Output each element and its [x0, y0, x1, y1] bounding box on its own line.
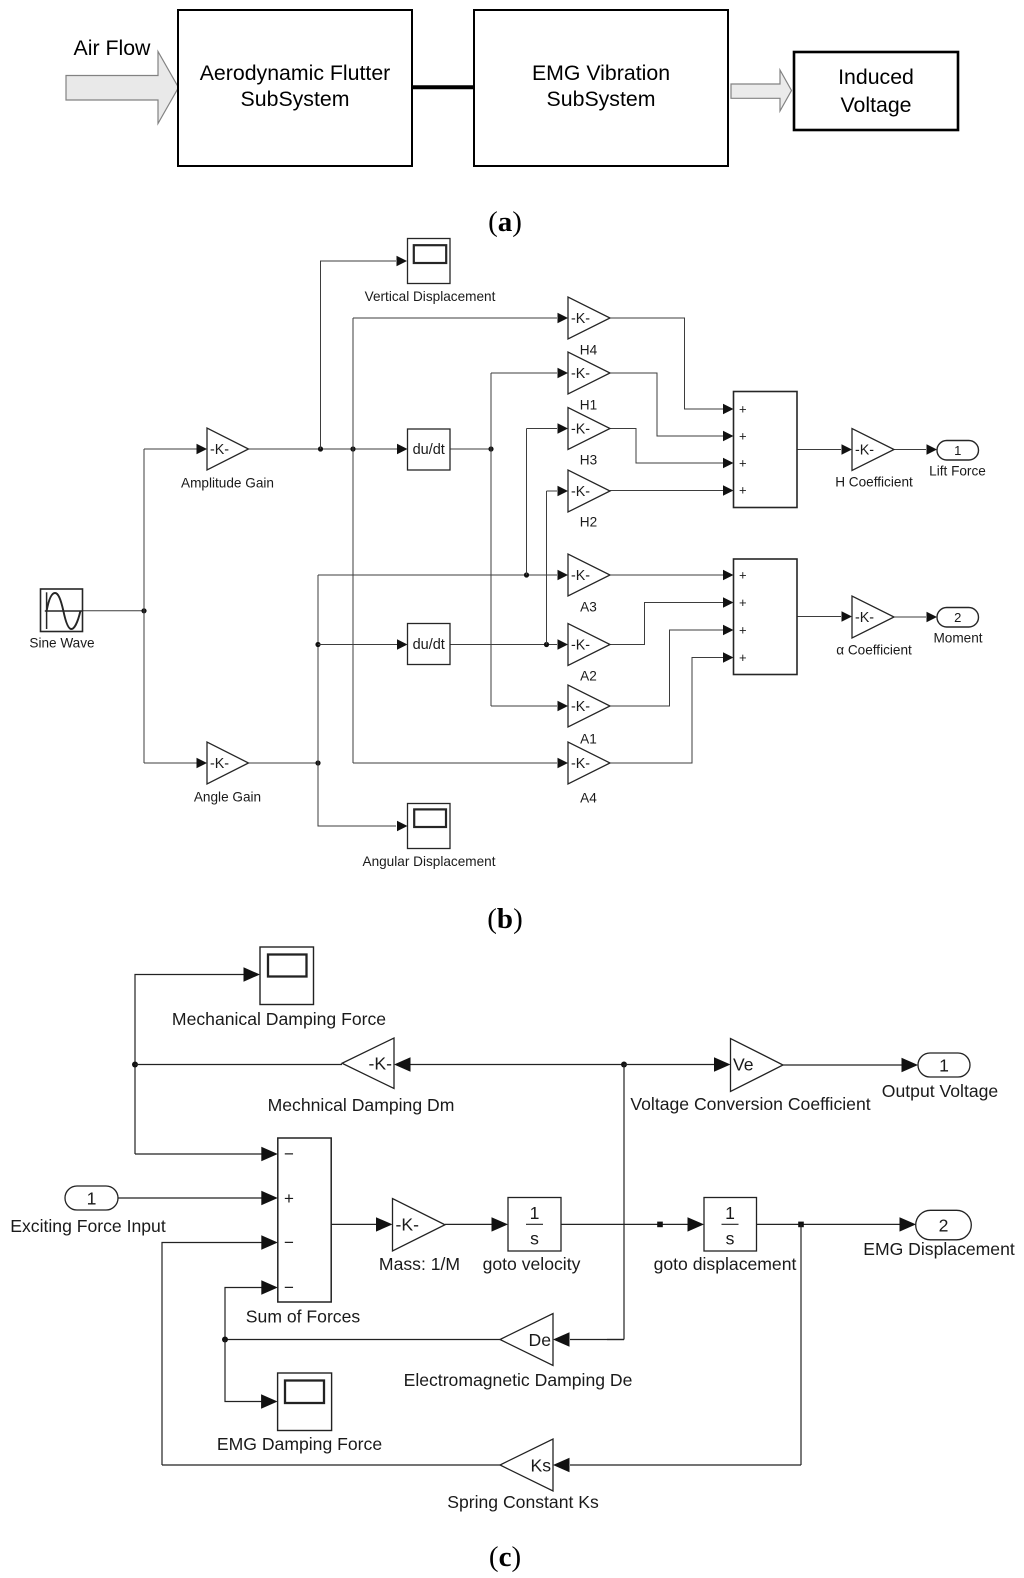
- block: Sum2 (alpha moment adder): [734, 559, 798, 675]
- inport 1: Exciting Force Input: [65, 1186, 118, 1210]
- svg-text:-K-: -K-: [571, 756, 590, 772]
- svg-text:-K-: -K-: [571, 638, 590, 654]
- gain: H2: [568, 470, 610, 512]
- junction velocity top: [621, 1062, 627, 1068]
- svg-text:−: −: [284, 1233, 294, 1252]
- block: EMG Vibration SubSystem: [474, 10, 728, 166]
- wire: displacement into Ks gain: [570, 1464, 801, 1466]
- svg-text:1: 1: [725, 1203, 735, 1223]
- wire: vertical x=624 (velocity trunk down to De): [623, 1065, 625, 1340]
- svg-text:-K-: -K-: [210, 756, 229, 772]
- svg-text:α Coefficient: α Coefficient: [836, 643, 912, 658]
- junction on angle output: [315, 760, 320, 765]
- wire: alpha Coefficient to port 2: [894, 616, 926, 618]
- wire: Sum output to Mass gain: [331, 1223, 377, 1225]
- wire: h to H4 gain: [353, 317, 557, 319]
- block: Sine Wave source: [41, 589, 83, 632]
- svg-text:H3: H3: [580, 453, 597, 468]
- block: Sum1 (H lift force adder): [734, 392, 798, 508]
- svg-text:−: −: [284, 1145, 294, 1164]
- wire: velocity line into Dm gain: [409, 1064, 624, 1066]
- svg-text:A4: A4: [580, 791, 597, 806]
- svg-text:−: −: [284, 1278, 294, 1297]
- svg-text:-K-: -K-: [571, 311, 590, 327]
- wire: Sine Wave output to junction: [82, 610, 144, 612]
- svg-text:Voltage Conversion Coefficient: Voltage Conversion Coefficient: [630, 1094, 870, 1114]
- wire: A2 out to Sum2 in2: [610, 603, 723, 645]
- svg-text:2: 2: [939, 1215, 949, 1235]
- wire: displacement integrator2 to port: [757, 1223, 901, 1225]
- small gray output arrow: [731, 70, 792, 111]
- thick connector line between subsystems: [412, 85, 474, 89]
- svg-text:1: 1: [954, 443, 961, 458]
- svg-text:H Coefficient: H Coefficient: [835, 475, 913, 490]
- svg-text:(b): (b): [487, 903, 522, 935]
- junction on De output: [222, 1337, 228, 1343]
- svg-text:(a): (a): [488, 206, 522, 238]
- wire: spring force to Sum input 3: [162, 1243, 263, 1466]
- svg-text:du/dt: du/dt: [413, 637, 445, 653]
- scope: Vertical Displacement: [408, 239, 451, 284]
- wire: into Amplitude Gain: [144, 448, 197, 450]
- gain: A4: [568, 742, 610, 784]
- svg-text:-K-: -K-: [396, 1215, 420, 1235]
- svg-text:du/dt: du/dt: [413, 442, 445, 458]
- svg-text:+: +: [739, 595, 747, 610]
- svg-text:-K-: -K-: [369, 1054, 393, 1074]
- junction on Dm output line: [132, 1062, 138, 1068]
- outport 2: EMG Displacement: [916, 1210, 972, 1240]
- wire: du/dt#1 output: [450, 448, 491, 450]
- junction on A3 feed (H3 tap): [524, 572, 529, 577]
- svg-text:Angle Gain: Angle Gain: [194, 790, 261, 805]
- wire: feed to Mechanical Damping Force scope: [135, 975, 245, 1155]
- gain: Angle Gain: [207, 742, 249, 784]
- wire: H1 out to Sum1 in2: [610, 373, 723, 436]
- svg-text:H4: H4: [580, 343, 598, 358]
- svg-text:EMG Damping Force: EMG Damping Force: [217, 1434, 382, 1454]
- svg-text:A3: A3: [580, 600, 597, 615]
- junction square on velocity line: [657, 1222, 663, 1228]
- junction square on displacement line: [798, 1222, 804, 1228]
- svg-text:Ks: Ks: [530, 1455, 551, 1475]
- wire: velocity integrator1 to integrator2: [561, 1223, 689, 1225]
- gain: Ve Voltage Conversion Coefficient: [731, 1039, 784, 1092]
- svg-text:EMG Vibration: EMG Vibration: [532, 61, 670, 85]
- gain: H Coefficient: [852, 429, 894, 471]
- svg-text:-K-: -K-: [855, 610, 874, 626]
- gain: H1: [568, 352, 610, 394]
- svg-text:Angular Displacement: Angular Displacement: [363, 854, 496, 869]
- wire: vertical x=801 (displacement down to Ks): [800, 1224, 802, 1465]
- svg-text:-K-: -K-: [210, 442, 229, 458]
- block: du/dt derivative 1: [408, 429, 451, 470]
- svg-text:goto velocity: goto velocity: [483, 1254, 581, 1274]
- svg-text:Mechanical Damping Force: Mechanical Damping Force: [172, 1009, 386, 1029]
- wire: Sum1 out to H Coefficient: [797, 449, 841, 451]
- gain: H4: [568, 297, 610, 339]
- svg-text:Sine Wave: Sine Wave: [29, 636, 94, 651]
- svg-text:H1: H1: [580, 398, 597, 413]
- wire: A1 out to Sum2 in3: [610, 630, 723, 706]
- svg-text:+: +: [739, 456, 747, 471]
- wire: du/dt#2 output to A2: [450, 644, 557, 646]
- wire: A3 out to Sum2 in1: [610, 574, 723, 576]
- wire: Dm gain output to trunk: [135, 1064, 342, 1066]
- svg-text:goto displacement: goto displacement: [654, 1254, 797, 1274]
- wire: into De gain: [607, 1339, 624, 1341]
- svg-text:Exciting Force Input: Exciting Force Input: [10, 1216, 166, 1236]
- gain: Amplitude Gain: [207, 428, 249, 470]
- svg-text:(c): (c): [489, 1541, 521, 1573]
- junction on amplitude line (scope tap): [318, 446, 323, 451]
- svg-text:A2: A2: [580, 669, 597, 684]
- svg-text:Mass: 1/M: Mass: 1/M: [379, 1254, 460, 1274]
- junction on amplitude line (H4/A4 tap): [350, 446, 355, 451]
- svg-text:1: 1: [530, 1203, 540, 1223]
- wire: Mass gain to integrator 1: [445, 1223, 493, 1225]
- wire: drop to EMG Damping Force scope: [225, 1340, 262, 1402]
- svg-text:Electromagnetic Damping De: Electromagnetic Damping De: [404, 1370, 633, 1390]
- svg-text:Lift Force: Lift Force: [929, 464, 986, 479]
- svg-text:-K-: -K-: [571, 366, 590, 382]
- wire: De output: [225, 1339, 500, 1341]
- wire: A4 out to Sum2 in4: [610, 658, 723, 764]
- svg-text:-K-: -K-: [571, 422, 590, 438]
- svg-text:1: 1: [87, 1188, 97, 1208]
- wire: alpha' to H2 gain: [547, 490, 558, 492]
- wire: alpha to A3 gain: [318, 574, 557, 576]
- scope: Mechanical Damping Force: [260, 947, 314, 1005]
- wire: alpha to du/dt#2: [318, 644, 397, 646]
- svg-text:+: +: [739, 402, 747, 417]
- wire: H3 out to Sum1 in3: [610, 429, 723, 464]
- svg-text:Moment: Moment: [933, 631, 982, 646]
- outport 1: Output Voltage: [918, 1053, 970, 1077]
- svg-text:+: +: [739, 483, 747, 498]
- gain: Mechnical Damping Dm (-K-): [342, 1038, 394, 1089]
- wire: h' to A1 gain: [491, 705, 557, 707]
- wire: vertical x=491 (h' to H1 and A1): [490, 373, 492, 706]
- gain: Ks Spring Constant: [500, 1439, 553, 1491]
- svg-text:Aerodynamic Flutter: Aerodynamic Flutter: [200, 61, 391, 85]
- wire: riser to Vertical Displacement scope: [321, 261, 397, 449]
- svg-text:A1: A1: [580, 732, 597, 747]
- svg-text:SubSystem: SubSystem: [547, 87, 656, 111]
- svg-text:SubSystem: SubSystem: [241, 87, 350, 111]
- wire: into Sum of Forces input 1: [135, 1153, 263, 1155]
- block: Aerodynamic Flutter SubSystem: [178, 10, 412, 166]
- junction node on sine output: [141, 608, 146, 613]
- block: du/dt derivative 2: [408, 624, 451, 665]
- svg-text:s: s: [530, 1229, 539, 1249]
- junction on du/dt#2 output (H2 tap): [544, 642, 549, 647]
- svg-text:Air Flow: Air Flow: [74, 36, 152, 60]
- svg-text:Ve: Ve: [733, 1055, 754, 1075]
- wire: vertical x=318 (alpha trunk): [317, 575, 319, 826]
- block: integrator 2 (1/s) goto displacement: [704, 1198, 757, 1252]
- wire: Ks output to spring trunk: [162, 1464, 500, 1466]
- svg-text:1: 1: [939, 1055, 949, 1075]
- scope: Angular Displacement: [408, 804, 451, 849]
- wire: Angle Gain out to junction: [249, 762, 319, 764]
- wire: vertical x=353 (h to H4 and A4): [352, 318, 354, 763]
- svg-text:Output Voltage: Output Voltage: [882, 1081, 998, 1101]
- svg-text:-K-: -K-: [855, 443, 874, 459]
- wire: vertical x=526.5 (alpha to H3): [526, 429, 528, 576]
- wire: velocity to Ve gain: [624, 1064, 715, 1066]
- svg-text:Sum of Forces: Sum of Forces: [246, 1307, 361, 1327]
- wire: H2 out to Sum1 in4: [610, 490, 723, 492]
- wire: into Angle Gain: [144, 762, 197, 764]
- svg-text:Vertical Displacement: Vertical Displacement: [365, 289, 496, 304]
- wire: h to A4 gain: [353, 762, 557, 764]
- svg-text:+: +: [739, 429, 747, 444]
- gain: alpha Coefficient: [852, 596, 894, 638]
- wire: vertical trunk x=144 (sine to both gains): [143, 449, 145, 763]
- wire: Sum2 out to alpha Coefficient: [797, 616, 841, 618]
- gain: Mass 1/M: [393, 1199, 446, 1252]
- wire: Ve out to Output Voltage port: [783, 1064, 902, 1066]
- block: Sum of Forces: [278, 1138, 331, 1302]
- big gray input arrow (Air Flow): [66, 52, 179, 124]
- svg-text:EMG Displacement: EMG Displacement: [863, 1239, 1015, 1259]
- block: Induced Voltage: [794, 52, 958, 130]
- wire: alpha to H3 gain: [527, 428, 558, 430]
- junction on alpha trunk (du/dt#2 tap): [315, 642, 320, 647]
- svg-text:Amplitude Gain: Amplitude Gain: [181, 476, 274, 491]
- svg-text:Mechnical Damping Dm: Mechnical Damping Dm: [268, 1095, 455, 1115]
- gain: A2: [568, 624, 610, 666]
- gain: A1: [568, 685, 610, 727]
- svg-text:-K-: -K-: [571, 568, 590, 584]
- svg-text:+: +: [739, 650, 747, 665]
- svg-text:De: De: [529, 1330, 552, 1350]
- scope: EMG Damping Force: [278, 1373, 332, 1431]
- svg-text:Induced: Induced: [838, 65, 914, 89]
- wire: H Coefficient to port 1: [894, 449, 926, 451]
- wire: H4 out to Sum1 in1: [610, 318, 723, 409]
- svg-text:+: +: [739, 623, 747, 638]
- svg-text:Spring Constant Ks: Spring Constant Ks: [447, 1492, 599, 1512]
- wire: De force to Sum input 4: [225, 1288, 263, 1340]
- svg-text:s: s: [726, 1229, 735, 1249]
- gain: A3: [568, 554, 610, 596]
- svg-text:2: 2: [954, 610, 961, 625]
- svg-text:+: +: [739, 568, 747, 583]
- wire: drop to Angular Displacement scope: [318, 763, 396, 826]
- wire: Amplitude Gain out to du/dt: [249, 448, 398, 450]
- svg-text:-K-: -K-: [571, 484, 590, 500]
- gain: De Electromagnetic Damping: [500, 1314, 553, 1366]
- wire: h' to H1 gain: [491, 372, 557, 374]
- outport 2: Moment: [937, 608, 979, 628]
- wire: vertical x=546.5 (alpha' to H2): [546, 491, 548, 645]
- svg-text:Voltage: Voltage: [840, 93, 911, 117]
- junction on du/dt#1 output: [488, 446, 493, 451]
- block: integrator 1 (1/s) goto velocity: [508, 1198, 561, 1252]
- wire: Exciting Force to Sum input 2: [118, 1197, 263, 1199]
- svg-text:H2: H2: [580, 515, 597, 530]
- gain: H3: [568, 408, 610, 450]
- svg-text:-K-: -K-: [571, 699, 590, 715]
- svg-text:+: +: [284, 1189, 294, 1208]
- outport 1: Lift Force: [937, 441, 979, 461]
